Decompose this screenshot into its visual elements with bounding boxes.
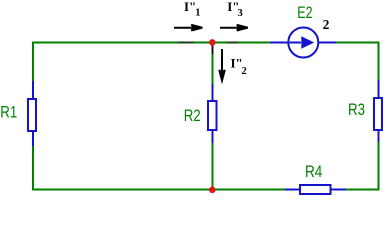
svg-text:R1: R1 bbox=[0, 104, 17, 122]
svg-text:2: 2 bbox=[323, 17, 330, 32]
svg-text:R2: R2 bbox=[184, 107, 201, 125]
svg-text:R3: R3 bbox=[348, 101, 365, 119]
svg-text:2: 2 bbox=[242, 66, 247, 77]
svg-text:R4: R4 bbox=[305, 163, 322, 181]
svg-text:3: 3 bbox=[238, 8, 243, 19]
svg-text:1: 1 bbox=[195, 8, 200, 19]
svg-text:E2: E2 bbox=[297, 4, 312, 22]
